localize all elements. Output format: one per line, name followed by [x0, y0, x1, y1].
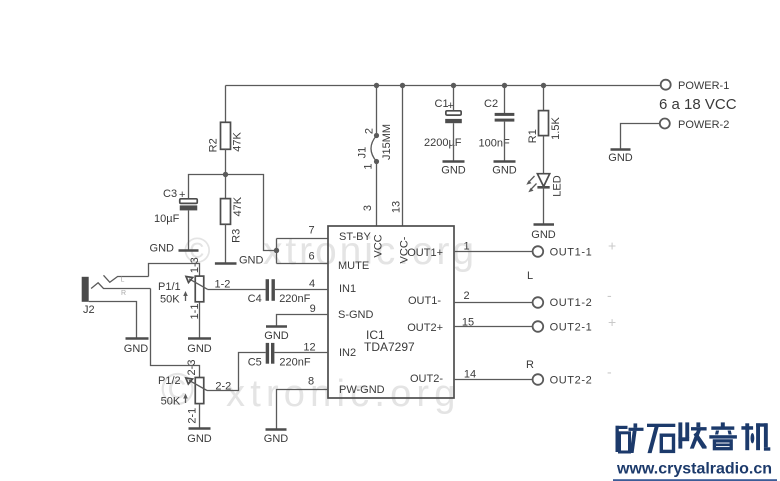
svg-text:GND: GND: [239, 255, 264, 267]
wire C2 to ground: [504, 122, 506, 162]
svg-text:GND: GND: [187, 343, 212, 355]
svg-text:7: 7: [308, 225, 314, 237]
svg-text:1-2: 1-2: [215, 278, 231, 290]
wire R to P1/2: [151, 289, 200, 378]
wire pin4 IN1: [275, 289, 328, 291]
wire node to ST-BY/MUTE: [226, 175, 277, 251]
wire C4 to P1/1 wiper: [208, 289, 266, 291]
wire pin9 S-GND to ground: [277, 315, 329, 327]
svg-text:220nF: 220nF: [279, 293, 310, 305]
svg-text:R1: R1: [527, 129, 539, 143]
svg-text:OUT2-1: OUT2-1: [550, 321, 593, 333]
svg-text:OUT1-2: OUT1-2: [550, 297, 593, 309]
logo char ji: [741, 423, 770, 450]
logo char yin: [709, 422, 737, 448]
svg-text:2: 2: [463, 290, 469, 302]
junction rail-C2: [502, 83, 507, 88]
svg-text:GND: GND: [608, 152, 633, 164]
wire pin8 PW-GND to ground: [277, 390, 329, 430]
wire pin13: [402, 86, 404, 227]
wire pin15 OUT2+: [454, 326, 533, 328]
svg-text:2-3: 2-3: [186, 360, 198, 376]
node R2/R3 junction: [223, 172, 228, 177]
wire C3 to ground: [188, 210, 190, 250]
ground C1: [441, 162, 466, 177]
svg-text:8: 8: [308, 376, 314, 388]
wire J2 sleeve to ground: [89, 302, 137, 339]
svg-text:14: 14: [464, 368, 476, 380]
node stby-mute junction: [274, 248, 279, 253]
ground J2: [124, 339, 149, 356]
svg-text:2-1: 2-1: [187, 408, 199, 424]
capacitor C1: [424, 98, 462, 149]
svg-text:J15MM: J15MM: [381, 124, 393, 160]
svg-text:MUTE: MUTE: [338, 260, 369, 272]
svg-text:ST-BY: ST-BY: [339, 231, 371, 243]
svg-text:1: 1: [363, 163, 375, 169]
svg-text:10µF: 10µF: [154, 213, 180, 225]
logo char shou: [678, 422, 706, 448]
svg-text:OUT1-1: OUT1-1: [550, 247, 593, 259]
wire node to C3: [189, 175, 226, 199]
svg-text:+: +: [608, 238, 616, 254]
wire pin6: [277, 263, 329, 265]
wire rail to C1: [453, 86, 455, 111]
svg-text:VCC-: VCC-: [399, 236, 411, 263]
svg-text:GND: GND: [124, 343, 149, 355]
svg-text:12: 12: [303, 341, 315, 353]
svg-text:100nF: 100nF: [479, 138, 510, 150]
svg-text:GND: GND: [150, 243, 175, 255]
svg-text:13: 13: [391, 201, 403, 213]
resistor R1: [527, 111, 562, 144]
svg-text:C4: C4: [248, 293, 262, 305]
svg-text:OUT2+: OUT2+: [407, 322, 443, 334]
svg-text:TDA7297: TDA7297: [364, 340, 415, 354]
ground LED: [531, 225, 556, 242]
wire P1/2 to ground: [199, 404, 201, 429]
svg-text:+: +: [448, 100, 454, 112]
wire pin7: [277, 238, 329, 240]
ground C3: [150, 243, 199, 255]
svg-text:OUT2-2: OUT2-2: [550, 374, 593, 386]
wire R1 to LED: [543, 136, 545, 174]
svg-text:50K: 50K: [160, 294, 180, 306]
ground P1/1: [187, 339, 212, 356]
junction rail-R1: [541, 83, 546, 88]
watermark row2: [161, 363, 461, 415]
svg-text:PW-GND: PW-GND: [339, 384, 385, 396]
wire R3 to ground: [225, 224, 227, 263]
svg-text:47K: 47K: [232, 131, 244, 151]
wire pin1 OUT1+: [454, 251, 533, 253]
svg-text:GND: GND: [531, 229, 556, 241]
svg-text:GND: GND: [441, 165, 466, 177]
svg-text:GND: GND: [264, 330, 289, 342]
svg-text:15: 15: [462, 316, 474, 328]
svg-text:9: 9: [310, 303, 316, 315]
svg-text:R: R: [526, 359, 534, 371]
svg-text:50K: 50K: [161, 396, 181, 408]
svg-text:2-2: 2-2: [215, 380, 231, 392]
svg-text:OUT1+: OUT1+: [407, 247, 443, 259]
potentiometer P1/2: [158, 360, 207, 424]
logo bottom bar: [613, 479, 777, 481]
svg-text:R: R: [121, 290, 126, 297]
ground S-GND: [264, 327, 289, 343]
svg-text:2: 2: [364, 128, 376, 134]
watermark row1: [184, 230, 477, 273]
wire pin14 OUT2-: [454, 379, 533, 381]
terminal POWER-1: [661, 80, 730, 92]
junction rail-C1: [451, 83, 456, 88]
terminal OUT2-1: [533, 321, 593, 333]
ground PW-GND: [264, 430, 289, 446]
connector J2 jack: [82, 275, 151, 316]
svg-text:OUT1-: OUT1-: [408, 295, 441, 307]
svg-text:R2: R2: [208, 138, 220, 152]
wire rail to R1: [543, 86, 545, 111]
wire rail to C2: [504, 86, 506, 114]
wire LED to ground: [543, 187, 545, 224]
LED: [526, 174, 563, 197]
svg-text:J1: J1: [357, 147, 369, 159]
svg-text:C5: C5: [248, 357, 262, 369]
svg-text:GND: GND: [264, 433, 289, 445]
svg-text:IN2: IN2: [339, 347, 356, 359]
svg-text:1.5K: 1.5K: [550, 117, 562, 140]
ground R3: [215, 255, 264, 267]
op-amp IC1 TDA7297 body: [328, 226, 454, 398]
svg-text:47K: 47K: [232, 196, 244, 216]
svg-text:-: -: [607, 287, 612, 303]
terminal OUT1-1: [533, 246, 593, 258]
svg-text:L: L: [527, 270, 533, 282]
ground C2: [492, 162, 517, 177]
svg-text:1-3: 1-3: [189, 257, 201, 273]
wire POWER-2 to ground: [621, 124, 660, 150]
resistor R2: [208, 122, 244, 152]
wire C1 to ground: [453, 123, 455, 161]
svg-text:220nF: 220nF: [279, 357, 310, 369]
wire rail to R2: [225, 86, 227, 123]
svg-text:C2: C2: [484, 98, 498, 110]
capacitor C4: [248, 279, 311, 305]
svg-text:4: 4: [309, 278, 315, 290]
terminal OUT1-2: [533, 297, 593, 309]
wire stby-mute connector: [276, 239, 278, 264]
wire L to P1/1: [149, 264, 200, 277]
potentiometer P1/1: [158, 257, 208, 319]
junction rail-pin3: [374, 83, 379, 88]
capacitor C3: [154, 188, 197, 225]
logo crystalradio: [613, 422, 777, 481]
svg-text:C3: C3: [163, 188, 177, 200]
svg-text:IN1: IN1: [339, 283, 356, 295]
svg-text:3: 3: [362, 205, 374, 211]
svg-text:POWER-2: POWER-2: [678, 119, 729, 131]
svg-text:J2: J2: [83, 304, 95, 316]
svg-text:L: L: [121, 277, 125, 284]
svg-text:6: 6: [308, 251, 314, 263]
resistor R3: [221, 175, 244, 243]
svg-text:2200µF: 2200µF: [424, 137, 462, 149]
logo char shi: [647, 424, 675, 453]
ground P1/2: [187, 429, 212, 445]
svg-text:C1: C1: [435, 98, 449, 110]
terminal POWER-2: [660, 119, 730, 132]
wire jumper to rail: [376, 86, 378, 136]
wire C5 to P1/2 wiper: [207, 353, 266, 391]
wire pin3 jumper lower: [376, 162, 378, 227]
svg-text:GND: GND: [187, 433, 212, 445]
svg-text:+: +: [608, 314, 616, 330]
svg-text:VCC: VCC: [373, 234, 385, 257]
capacitor C2: [479, 98, 515, 150]
terminal OUT2-2: [533, 374, 593, 386]
svg-text:GND: GND: [492, 165, 517, 177]
svg-text:OUT2-: OUT2-: [410, 373, 443, 385]
svg-text:-: -: [607, 363, 612, 379]
junction rail-pin13: [400, 83, 405, 88]
capacitor C5: [248, 343, 311, 369]
svg-text:6 a 18 VCC: 6 a 18 VCC: [659, 96, 737, 113]
svg-text:P1/2: P1/2: [158, 375, 181, 387]
wire top rail: [226, 85, 661, 87]
svg-text:S-GND: S-GND: [338, 309, 374, 321]
wire P1/1 to ground: [199, 302, 201, 339]
svg-text:P1/1: P1/1: [158, 281, 181, 293]
ground POWER: [608, 150, 633, 165]
svg-text:R3: R3: [231, 229, 243, 243]
svg-text:www.crystalradio.cn: www.crystalradio.cn: [616, 461, 772, 478]
svg-text:LED: LED: [552, 175, 564, 196]
svg-text:+: +: [179, 189, 185, 201]
svg-text:POWER-1: POWER-1: [678, 80, 729, 92]
logo char kuang: [616, 423, 644, 453]
svg-text:1: 1: [463, 241, 469, 253]
wire pin2 OUT1-: [454, 302, 533, 304]
jumper J1: [357, 124, 394, 170]
wire R2 to node: [225, 149, 227, 174]
wire pin12 IN2: [274, 352, 328, 354]
